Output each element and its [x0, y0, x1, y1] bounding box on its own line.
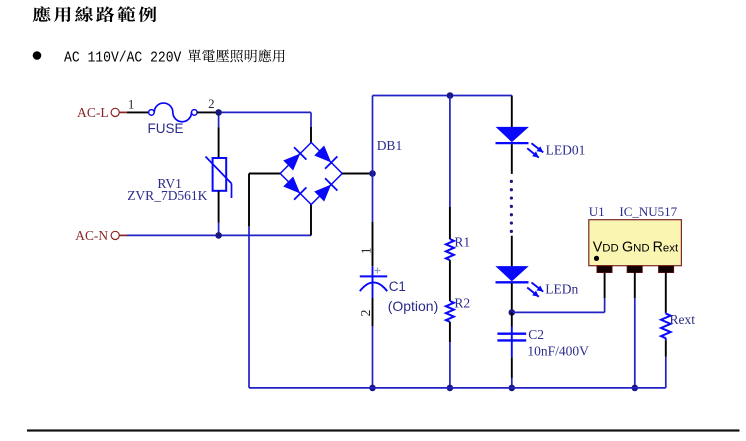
svg-text:U1: U1 [589, 204, 605, 219]
svg-text:DB1: DB1 [377, 138, 403, 153]
svg-text:AC-L: AC-L [77, 105, 109, 120]
svg-text:2: 2 [208, 97, 214, 111]
svg-text:C2: C2 [528, 327, 544, 342]
svg-text:GND: GND [622, 240, 650, 256]
svg-text:10nF/400V: 10nF/400V [527, 343, 589, 358]
svg-text:Rext: Rext [670, 312, 696, 327]
svg-text:2: 2 [359, 310, 374, 317]
svg-text:R2: R2 [454, 296, 470, 311]
svg-text:AC-N: AC-N [75, 228, 108, 243]
svg-text:VDD: VDD [593, 240, 619, 256]
svg-text:(Option): (Option) [388, 298, 439, 314]
svg-text:AC 110V/AC 220V: AC 110V/AC 220V [64, 50, 182, 67]
svg-text:FUSE: FUSE [148, 121, 184, 136]
svg-text:ZVR_7D561K: ZVR_7D561K [127, 188, 207, 203]
svg-text:LED01: LED01 [546, 142, 586, 157]
svg-text:IC_NU517: IC_NU517 [619, 204, 677, 219]
svg-text:1: 1 [128, 98, 134, 112]
svg-text:C1: C1 [389, 279, 406, 294]
svg-text:1: 1 [359, 247, 374, 254]
svg-text:Rext: Rext [653, 240, 679, 256]
svg-text:LEDn: LEDn [545, 281, 578, 296]
svg-text:R1: R1 [454, 235, 470, 250]
